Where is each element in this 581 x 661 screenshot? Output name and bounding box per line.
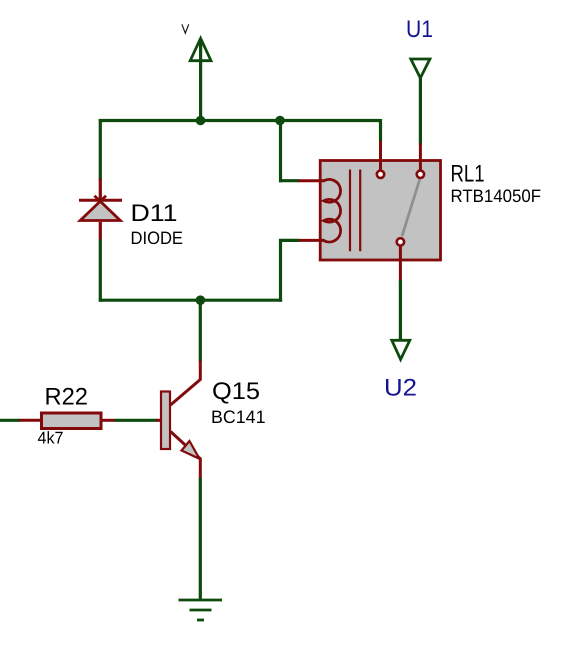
diode D11 [79,196,122,221]
wire coil top feed [279,119,325,182]
wire relay common to U2 [399,246,402,341]
wire left branch upper (to diode) [99,119,102,199]
svg-text:RTB14050F: RTB14050F [451,186,542,206]
wire relay pin2 to U1 [419,77,422,170]
relay pin 1 circle [377,171,384,178]
relay switch blade [402,180,420,237]
wire relay pin1 to rail [379,119,382,170]
svg-text:U1: U1 [406,16,433,43]
svg-text:DIODE: DIODE [131,228,184,248]
ground [179,600,223,620]
label V [182,24,189,33]
node junction on bottom rail at collector [196,295,206,305]
svg-text:4k7: 4k7 [38,429,64,448]
relay common pin circle [397,238,404,245]
svg-text:D11: D11 [131,200,178,227]
power symbol V [190,38,211,120]
svg-text:Q15: Q15 [212,378,260,405]
terminal U1 [411,59,430,78]
wire emitter [171,432,201,601]
wire base (left edge to resistor, resistor to transistor) [0,419,161,422]
wire bottom rail [99,299,282,302]
svg-text:BC141: BC141 [211,407,266,427]
relay pin 2 circle [417,171,424,178]
wire coil bottom return [279,239,325,302]
wire left branch lower (diode to bottom rail) [99,222,102,302]
relay RL1 box [320,161,440,261]
node junction on rail at V [196,116,206,126]
relay coil [324,179,341,242]
wire top rail V [99,119,381,122]
terminal U2 [392,340,410,359]
transistor Q15 base bar [161,392,170,450]
svg-text:U2: U2 [384,375,417,402]
transistor Q15 emitter arrow [182,441,200,459]
wire collector [171,299,201,405]
node junction on rail at coil feed [275,116,285,126]
svg-text:RL1: RL1 [451,161,485,188]
svg-text:R22: R22 [45,384,89,411]
resistor R22 [42,413,102,429]
relay core lines [350,170,360,252]
